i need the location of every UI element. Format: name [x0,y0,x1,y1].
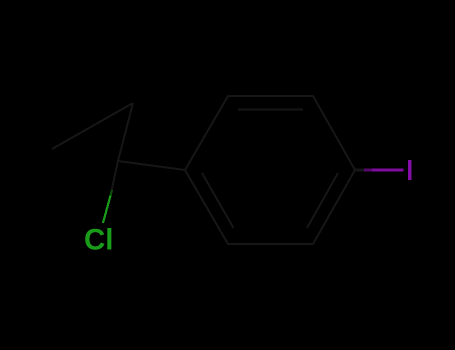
wire Cl bond green half [103,196,111,224]
wire double bond inner lower-right [307,173,338,228]
wire I bond purple half [372,168,404,171]
svg-text:Cl: Cl [84,224,114,257]
wire ring hexagon [185,96,355,244]
wire I bond gray stub [355,168,364,171]
wire double bond inner lower-left [202,173,234,228]
wire I bond dim purple transition [364,168,372,171]
wire Cl bond dim green transition [111,190,113,196]
benzene ring [52,96,355,244]
wire C-alpha to Cl bond upper gray half [111,161,119,196]
wire ring to C-alpha [118,161,185,170]
wire C-beta to C-gamma methyl [52,103,133,149]
wire double bond inner top [238,109,303,111]
wire C-alpha to C-beta [118,103,133,161]
atom label I [408,160,411,180]
